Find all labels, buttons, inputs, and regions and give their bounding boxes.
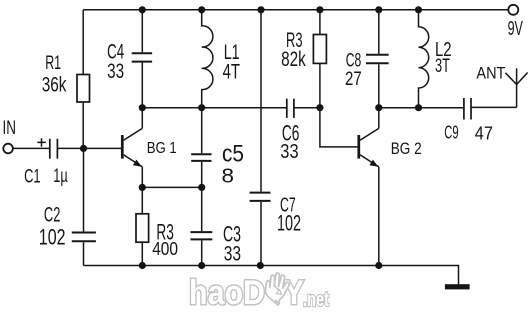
svg-text:Y: Y: [284, 274, 304, 312]
svg-text:3T: 3T: [435, 56, 450, 77]
svg-text:R1: R1: [45, 52, 61, 74]
svg-text:BG 2: BG 2: [391, 139, 422, 158]
svg-text:c5: c5: [222, 141, 244, 168]
svg-text:33: 33: [224, 243, 241, 266]
svg-text:9V: 9V: [508, 17, 523, 40]
svg-text:C9: C9: [444, 122, 458, 143]
svg-text:.net: .net: [303, 289, 329, 311]
svg-text:C1: C1: [24, 166, 40, 187]
svg-text:400: 400: [152, 239, 178, 259]
svg-text:8: 8: [222, 166, 235, 188]
svg-text:haoD: haoD: [189, 274, 265, 312]
svg-text:C2: C2: [44, 204, 61, 227]
svg-text:27: 27: [345, 68, 362, 90]
svg-text:BG 1: BG 1: [147, 140, 177, 157]
svg-text:47: 47: [475, 123, 493, 144]
svg-text:33: 33: [107, 60, 124, 83]
svg-text:ANT: ANT: [476, 64, 505, 83]
svg-text:4T: 4T: [223, 61, 241, 84]
svg-text:102: 102: [277, 211, 301, 236]
svg-text:IN: IN: [3, 118, 16, 139]
svg-text:33: 33: [280, 141, 298, 163]
svg-text:36k: 36k: [42, 73, 67, 96]
svg-text:82k: 82k: [281, 47, 306, 71]
svg-text:1µ: 1µ: [53, 166, 68, 187]
svg-text:102: 102: [39, 225, 66, 250]
